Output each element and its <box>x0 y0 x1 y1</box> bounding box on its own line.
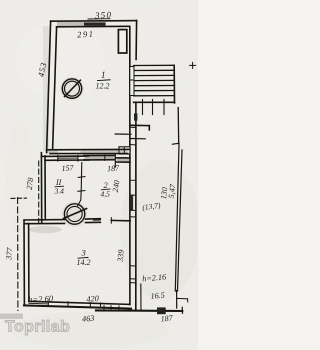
dashed survey line lower left <box>17 198 19 311</box>
bottom wall middle line left segment <box>29 302 49 305</box>
partition tick 1 <box>78 176 85 179</box>
wedge bottom h tick <box>177 297 188 299</box>
room II left wall inner <box>44 156 46 220</box>
under-stair landing line <box>134 101 175 103</box>
paper mottling <box>6 20 200 348</box>
right wall dark cell fill <box>130 195 133 210</box>
pencil shading left wall <box>43 26 49 151</box>
lower landing segment <box>131 124 149 126</box>
svg-text:463: 463 <box>82 314 95 324</box>
dashed connector horizontal <box>11 197 27 199</box>
bottom wall jamb ticks <box>47 301 49 306</box>
wall after door gap <box>111 219 130 221</box>
svg-text:h=2.60: h=2.60 <box>28 293 54 304</box>
svg-text:Toprilab: Toprilab <box>5 319 70 336</box>
room 1 left wall outer <box>47 21 51 152</box>
yard wedge line A <box>175 144 179 292</box>
room 2 label fraction 2/4.5 <box>101 180 111 199</box>
room 1 top wall outer <box>51 20 137 23</box>
cross marks on bottom line <box>103 306 105 311</box>
svg-text:3: 3 <box>81 248 86 258</box>
door jamb tick <box>104 155 106 160</box>
room 1 bottom wall inner <box>50 153 128 155</box>
svg-text:291: 291 <box>77 29 95 40</box>
svg-text:420: 420 <box>86 294 99 304</box>
dimension line under 350 <box>88 18 110 20</box>
pencil shading stove 1 <box>60 77 84 101</box>
room 3 bottom wall inner <box>29 301 130 304</box>
black blob on boundary <box>157 307 166 314</box>
svg-text:3.4: 3.4 <box>54 187 65 196</box>
room 3 label fraction 3/14.2 <box>77 248 91 268</box>
short dash segment <box>93 219 100 221</box>
staircase right edge <box>173 65 175 103</box>
window jamb ticks <box>57 155 59 161</box>
end tick <box>181 307 183 313</box>
svg-text:377: 377 <box>4 246 14 261</box>
door leaf rectangle <box>118 30 126 53</box>
svg-text:4,5: 4,5 <box>101 190 111 199</box>
window middle line <box>58 157 78 159</box>
room 1 label fraction 1/12.2 <box>96 70 110 91</box>
svg-text:339: 339 <box>116 249 126 263</box>
svg-text:14.2: 14.2 <box>77 258 91 267</box>
room II left wall outer <box>40 153 42 223</box>
partition line between room II and 2 <box>78 163 82 206</box>
stove 2 diagonal <box>64 209 87 219</box>
under-stair tick 1 <box>142 100 144 115</box>
right wall rung y210 <box>130 209 136 211</box>
wall between room II and room 3 (left part) <box>24 219 64 221</box>
room 3 left wall inner <box>28 224 30 302</box>
svg-text:16.5: 16.5 <box>150 291 165 301</box>
watermark bar <box>0 314 23 320</box>
door threshold lines <box>115 133 131 135</box>
flue rectangles on stair wall <box>130 67 134 96</box>
under-stair tick 2 <box>152 100 154 115</box>
window bar in top wall <box>84 22 106 25</box>
yard gate post vertical <box>140 284 142 310</box>
vent box with pennant <box>119 147 130 154</box>
building right wall outer (full height) <box>135 102 137 310</box>
yard wedge line B <box>178 150 183 291</box>
room 3 bottom wall outer <box>24 305 131 308</box>
room II label fraction II/3.4 <box>54 178 65 196</box>
partition tick 2 <box>78 190 85 193</box>
room 3 left wall outer <box>23 220 25 306</box>
room 1 left wall inner <box>53 27 57 150</box>
right wall rung y266 <box>130 265 136 267</box>
under-stair tick 3 <box>163 100 165 115</box>
chimney black blob on right wall <box>134 113 137 120</box>
svg-text:1: 1 <box>101 70 106 80</box>
dashed survey line upper left <box>38 161 40 223</box>
pencil shading stove 2 <box>62 201 88 227</box>
wall band fill left of window <box>57 22 84 27</box>
gray smudge under wall <box>28 226 62 233</box>
right wall rung y180 <box>130 179 136 181</box>
room 2 top wall <box>84 154 115 156</box>
svg-text:187: 187 <box>107 163 121 173</box>
survey cross top right <box>190 64 196 66</box>
svg-text:12.2: 12.2 <box>96 82 110 91</box>
yard boundary tick <box>172 142 179 145</box>
svg-text:187: 187 <box>160 313 174 323</box>
yard boundary upper line <box>177 108 180 144</box>
svg-text:240: 240 <box>111 180 122 193</box>
svg-text:278: 278 <box>25 177 35 190</box>
lower boundary line bottom right <box>96 309 182 312</box>
wall right of stove <box>86 218 101 220</box>
stove diagonal <box>65 80 81 96</box>
stove circle room II outer <box>64 204 84 224</box>
svg-text:5,47: 5,47 <box>167 183 178 199</box>
building right wall inner (full height) <box>129 26 131 304</box>
room II top wall <box>42 155 89 157</box>
stove circle room II inner <box>67 206 82 221</box>
right wall rung y282 <box>130 282 136 284</box>
lower landing jamb <box>148 126 150 130</box>
room 1 right wall top outer <box>135 21 138 60</box>
right wall rung y217 <box>130 216 136 218</box>
wedge bottom vertical <box>176 291 178 309</box>
wall band fills <box>85 156 115 159</box>
room 1 top wall inner <box>57 25 130 28</box>
right wall rung y195 <box>130 194 136 196</box>
paper background <box>0 0 198 350</box>
svg-text:157: 157 <box>61 163 75 173</box>
right wall rung y279 <box>130 278 136 280</box>
stove circle room 1 <box>62 79 81 98</box>
room 1 bottom wall outer <box>47 148 130 150</box>
staircase treads <box>134 65 175 96</box>
door jamb tick <box>110 218 112 224</box>
